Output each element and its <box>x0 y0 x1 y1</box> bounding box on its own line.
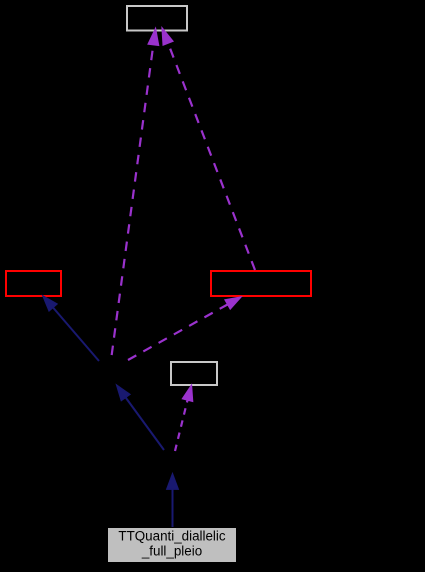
node: top class box (gray border, label hidden on black) <box>127 6 187 31</box>
node: TTQuanti_diallelic_full_pleio (current class, gray filled box with label) <box>108 528 237 563</box>
wire: dashed usage arrow from right red node top up to top node <box>162 28 255 271</box>
node: left red class box (truncated node) <box>6 271 61 296</box>
svg-text:TTQuanti_diallelic: TTQuanti_diallelic <box>118 529 225 544</box>
node: middle small class box (gray border) <box>171 362 217 385</box>
wire: dashed usage arrow up-right into small gray-bordered node <box>175 385 193 451</box>
wire: solid inheritance arrow from TTQuanti_diallelic_full_pleio up to hidden base node <box>167 473 179 527</box>
wire: solid inheritance arrow up-left into left red node <box>43 296 99 361</box>
wire: long dashed usage arrow up to top node <box>111 28 159 360</box>
svg-text:_full_pleio: _full_pleio <box>141 543 202 558</box>
wire: dashed usage arrow up-right into right red node <box>128 297 242 360</box>
node: right red class box (truncated node) <box>211 271 311 296</box>
wire: solid inheritance arrow diagonal up-left to hidden node <box>116 385 164 450</box>
